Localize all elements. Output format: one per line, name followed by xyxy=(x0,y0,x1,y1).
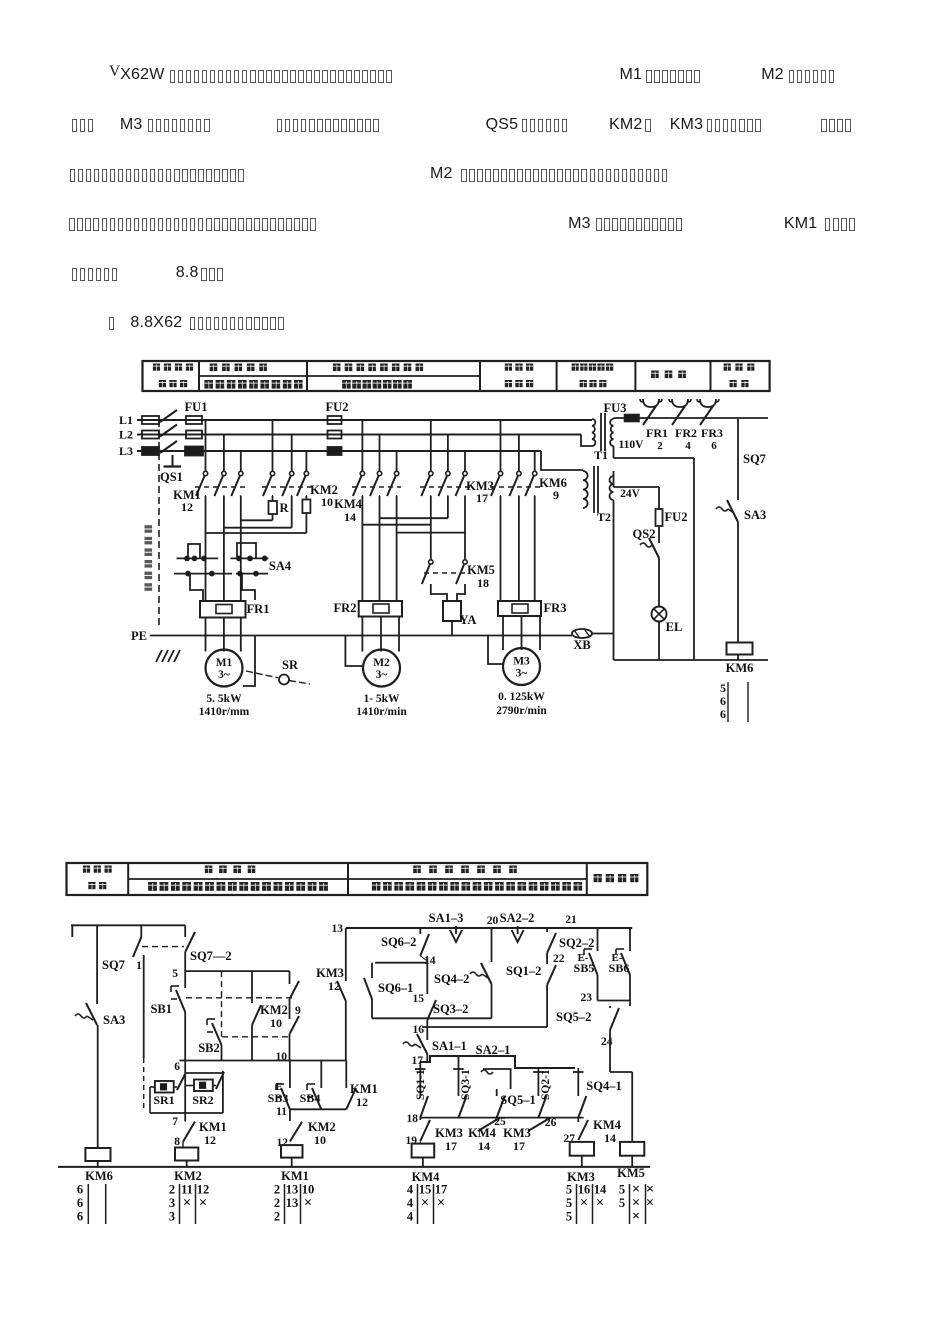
contact xyxy=(290,471,294,475)
svg-text:24V: 24V xyxy=(620,488,641,500)
svg-text:6: 6 xyxy=(720,707,726,721)
svg-text:2: 2 xyxy=(657,440,663,452)
svg-text:×: × xyxy=(580,1195,588,1211)
contact SQ6-2 xyxy=(419,928,421,934)
svg-text:EL: EL xyxy=(666,620,683,634)
contact xyxy=(517,471,521,475)
contact SQ7-1 xyxy=(140,925,142,937)
transformer T1 xyxy=(592,419,595,446)
pushbutton SB3 xyxy=(289,1061,291,1089)
svg-text:6: 6 xyxy=(77,1183,83,1197)
wire branch drop xyxy=(205,420,207,471)
wire 23 xyxy=(598,1000,631,1002)
svg-text:KM4: KM4 xyxy=(468,1126,497,1140)
header cell text 电源开关/及保护 xyxy=(153,364,160,371)
motor M2 earth hook xyxy=(345,636,362,667)
speed relay SR2 contact xyxy=(194,1080,213,1092)
linkage dash SB2 row xyxy=(222,1036,290,1038)
contact xyxy=(203,471,207,475)
svg-text:22: 22 xyxy=(553,953,565,965)
fuse group FU2 (power fuses) xyxy=(328,416,342,424)
contact xyxy=(533,471,537,475)
svg-text:5: 5 xyxy=(720,681,726,695)
svg-text:6: 6 xyxy=(77,1196,83,1210)
svg-text:SB5: SB5 xyxy=(574,961,595,975)
110V control line xyxy=(614,417,769,419)
contact SQ1-1 xyxy=(419,1062,421,1096)
svg-text:KM1: KM1 xyxy=(199,1120,227,1134)
contact xyxy=(222,471,226,475)
svg-text:4: 4 xyxy=(407,1210,414,1224)
svg-text:2790r/min: 2790r/min xyxy=(496,705,547,717)
svg-text:9: 9 xyxy=(553,488,559,502)
svg-text:SQ3-1: SQ3-1 xyxy=(460,1069,472,1100)
svg-text:SA1–1: SA1–1 xyxy=(432,1039,467,1053)
svg-text:10: 10 xyxy=(270,1016,282,1030)
svg-text:2: 2 xyxy=(274,1210,280,1224)
svg-text:9: 9 xyxy=(295,1005,301,1017)
svg-text:SA4: SA4 xyxy=(269,559,292,573)
svg-text:14: 14 xyxy=(344,510,356,524)
svg-text:SR1: SR1 xyxy=(153,1093,174,1107)
speed relay SR1 contact xyxy=(155,1081,174,1093)
pushbutton SB1 xyxy=(184,971,186,988)
svg-text:13: 13 xyxy=(286,1183,299,1197)
linkage dash SB1 row xyxy=(186,997,292,999)
wires KM3 group down xyxy=(430,496,432,560)
bus L1 wire xyxy=(137,419,592,421)
svg-text:20: 20 xyxy=(487,915,499,927)
stub from figure 1 xyxy=(71,925,73,937)
svg-text:KM4: KM4 xyxy=(593,1118,622,1132)
24V loop top wire xyxy=(614,486,660,488)
pushbutton SB2 xyxy=(212,1023,222,1045)
svg-text:0. 125kW: 0. 125kW xyxy=(498,691,545,703)
wire YA to PE xyxy=(451,621,453,636)
wire 110V return xyxy=(613,446,615,458)
svg-text:SB6: SB6 xyxy=(609,961,630,975)
svg-text:5: 5 xyxy=(619,1196,625,1210)
control bottom bus xyxy=(58,1166,650,1168)
contact xyxy=(239,471,243,475)
svg-text:SB2: SB2 xyxy=(198,1041,220,1055)
wires KM6 group to FR3 xyxy=(500,496,502,601)
svg-text:SQ6–2: SQ6–2 xyxy=(381,935,416,949)
svg-text:SQ5–1: SQ5–1 xyxy=(500,1093,535,1107)
svg-text:6: 6 xyxy=(711,440,717,452)
svg-text:SQ2–2: SQ2–2 xyxy=(559,936,594,950)
wire branch drop xyxy=(447,435,449,472)
contact SQ2-2 xyxy=(546,928,548,932)
svg-text:L2: L2 xyxy=(119,428,133,442)
wire y1027 xyxy=(422,1026,547,1028)
contactor coil KM3 xyxy=(570,1142,594,1156)
svg-text:SQ7––2: SQ7––2 xyxy=(190,949,232,963)
svg-text:×: × xyxy=(183,1195,191,1211)
svg-text:KM2: KM2 xyxy=(174,1169,202,1183)
svg-text:3~: 3~ xyxy=(376,669,388,681)
svg-text:10: 10 xyxy=(321,495,333,509)
svg-text:4: 4 xyxy=(407,1183,414,1197)
svg-text:KM3: KM3 xyxy=(435,1126,463,1140)
svg-text:XB: XB xyxy=(573,638,590,652)
wire branch drop xyxy=(291,435,293,472)
contact SQ7-2 xyxy=(184,925,186,937)
wire y1018 xyxy=(372,1017,492,1019)
svg-text:FR1: FR1 xyxy=(646,426,668,440)
svg-text:17: 17 xyxy=(513,1139,525,1153)
contactor coil KM2 xyxy=(175,1148,198,1161)
svg-text:2: 2 xyxy=(274,1196,280,1210)
contact SQ3-2 xyxy=(427,1000,436,1020)
24V winding xyxy=(610,476,614,500)
svg-text:3~: 3~ xyxy=(218,669,230,681)
svg-text:KM2: KM2 xyxy=(260,1003,288,1017)
wire branch drop xyxy=(361,420,363,471)
svg-text:L3: L3 xyxy=(119,444,133,458)
SA4 lower links xyxy=(190,574,203,600)
contact SQ4-1 xyxy=(577,1068,579,1096)
header cell 冷却泵/控制 xyxy=(83,866,90,873)
wire KM2 right to KM1 branch xyxy=(205,532,307,534)
svg-text:12: 12 xyxy=(328,979,340,993)
wire branch drop xyxy=(396,451,398,471)
contact xyxy=(446,471,450,475)
control top wire right xyxy=(346,927,632,929)
svg-text:13: 13 xyxy=(286,1196,299,1210)
linkage dash vertical xyxy=(221,971,223,1037)
wire KM1 branch verticals to SA4 xyxy=(205,496,207,601)
svg-text:13: 13 xyxy=(332,923,344,935)
switch SA3 xyxy=(86,1003,97,1025)
svg-text:17: 17 xyxy=(476,491,488,505)
svg-text:YA: YA xyxy=(460,613,477,627)
svg-text:SB1: SB1 xyxy=(150,1002,172,1016)
contactor coil KM4 xyxy=(412,1144,435,1158)
contact SQ1-2 xyxy=(546,962,548,964)
motor M2 xyxy=(363,650,400,687)
wire node14 xyxy=(375,962,427,964)
svg-text:11: 11 xyxy=(276,1106,287,1118)
svg-text:SR: SR xyxy=(282,658,299,672)
svg-text:18: 18 xyxy=(477,576,489,590)
cooling pump branch wire xyxy=(96,925,98,1004)
earth symbol xyxy=(156,650,162,662)
svg-text:15: 15 xyxy=(413,993,425,1005)
svg-text:5: 5 xyxy=(566,1183,572,1197)
svg-text:14: 14 xyxy=(424,955,436,967)
resistor (braking, unlabelled) xyxy=(305,496,307,500)
header table frame xyxy=(143,361,770,391)
thermal relay FR2 xyxy=(359,601,402,617)
speed relay branch rails xyxy=(185,1072,223,1074)
wire branch drop xyxy=(500,420,502,471)
svg-text:14: 14 xyxy=(604,1131,616,1145)
svg-text:QS1: QS1 xyxy=(160,470,183,484)
svg-text:5. 5kW: 5. 5kW xyxy=(206,693,242,705)
svg-text:KM5: KM5 xyxy=(617,1166,645,1180)
svg-text:SQ3–2: SQ3–2 xyxy=(433,1002,468,1016)
machine boundary dash line xyxy=(158,420,160,628)
wires KM4 group to FR2 xyxy=(361,496,363,601)
svg-text:6: 6 xyxy=(174,1061,180,1073)
contact KM1 12 (brake) xyxy=(184,1121,186,1122)
wire to KM6 coil xyxy=(97,1025,99,1148)
svg-text:SQ7: SQ7 xyxy=(102,958,125,972)
svg-text:KM1: KM1 xyxy=(281,1169,309,1183)
control top wire left xyxy=(71,924,185,926)
lamp EL xyxy=(652,607,667,622)
svg-text:×: × xyxy=(632,1209,640,1225)
bus L2 wire xyxy=(137,434,581,436)
vertical text on boundary xyxy=(145,525,153,533)
contact KM2 10 xyxy=(290,1016,300,1034)
svg-text:1410r/min: 1410r/min xyxy=(356,706,407,718)
svg-text:3: 3 xyxy=(169,1196,175,1210)
phase swap wires KM4-KM3 xyxy=(380,517,448,519)
svg-text:18: 18 xyxy=(407,1113,419,1125)
fuse group FU1 xyxy=(186,416,202,424)
contact KM2 (brake column) xyxy=(251,971,253,1003)
svg-text:4: 4 xyxy=(407,1196,414,1210)
SA2-1 link xyxy=(483,1069,511,1089)
motor M3 xyxy=(503,648,540,685)
svg-text:21: 21 xyxy=(565,914,577,926)
spindle branch from node 13 xyxy=(345,928,347,981)
fuse FU3 xyxy=(625,415,640,422)
header cell 工作台进给控制 / 变速时冲动、上、下、左、右、前、后移动 xyxy=(413,866,421,874)
svg-text:SQ4–2: SQ4–2 xyxy=(434,972,469,986)
svg-text:23: 23 xyxy=(581,992,593,1004)
svg-text:5: 5 xyxy=(566,1196,572,1210)
contactor coil KM6 xyxy=(85,1148,110,1161)
svg-text:2: 2 xyxy=(274,1183,280,1197)
svg-text:1410r/mm: 1410r/mm xyxy=(199,706,250,718)
wire branch drop xyxy=(305,451,307,471)
disconnect switch QS1 xyxy=(160,410,177,422)
svg-text:SA2–2: SA2–2 xyxy=(500,911,535,925)
svg-text:6: 6 xyxy=(720,694,726,708)
contactor coil KM1 xyxy=(281,1145,303,1158)
svg-text:2: 2 xyxy=(169,1183,175,1197)
svg-text:5: 5 xyxy=(619,1183,625,1197)
wire branch drop xyxy=(379,435,381,472)
svg-text:M1: M1 xyxy=(216,657,233,669)
contact SQ6-1 xyxy=(371,963,373,978)
svg-text:R: R xyxy=(279,501,289,515)
wire branch drop xyxy=(272,420,274,471)
svg-text:KM4: KM4 xyxy=(334,497,363,511)
node 11 wire xyxy=(290,1108,346,1110)
wire SQ5-2 to KM5 xyxy=(609,1006,611,1008)
svg-text:16: 16 xyxy=(413,1024,425,1036)
svg-text:M2: M2 xyxy=(373,657,390,669)
wires KM5 to YA xyxy=(431,584,447,601)
SA4 bracket links xyxy=(188,544,200,558)
wire T1 secondary top xyxy=(613,418,615,419)
speed relay SR xyxy=(279,675,289,685)
svg-text:SQ4–1: SQ4–1 xyxy=(586,1079,621,1093)
svg-text:×: × xyxy=(304,1195,312,1211)
thermal contacts FR1 FR2 FR3 on 110V line xyxy=(643,406,656,425)
svg-text:3: 3 xyxy=(169,1210,175,1224)
contact SQ5-1 xyxy=(496,1089,498,1096)
svg-text:5: 5 xyxy=(566,1210,572,1224)
contact KM4 to KM3 coil xyxy=(577,1118,579,1122)
header cell 主轴控制 / 冲动、变速、制动及停转、经动控制 xyxy=(205,866,213,874)
transformer T2 xyxy=(541,451,583,470)
contact KM2 10 interlock xyxy=(289,1109,291,1121)
terminal on L2 xyxy=(142,431,159,439)
svg-text:T2: T2 xyxy=(597,510,611,524)
wire L2 to T1 xyxy=(581,435,592,447)
svg-text:FU2: FU2 xyxy=(665,510,688,524)
wire branch drop xyxy=(240,451,242,471)
24V loop left wire xyxy=(613,500,615,660)
svg-text:KM3: KM3 xyxy=(316,966,344,980)
svg-text:4: 4 xyxy=(685,440,691,452)
wire node6 down xyxy=(184,1061,186,1122)
contact xyxy=(270,471,274,475)
thermal relay FR3 xyxy=(498,601,541,616)
switch QS2 xyxy=(649,538,659,558)
svg-text:KM3: KM3 xyxy=(503,1126,531,1140)
wire below contact 1 xyxy=(143,955,145,1058)
resistor R xyxy=(272,496,274,501)
svg-text:24: 24 xyxy=(601,1036,613,1048)
svg-text:SB4: SB4 xyxy=(300,1091,321,1105)
svg-text:PE: PE xyxy=(131,629,147,643)
motor M3 earth hook xyxy=(488,636,503,665)
contact KM2 9 xyxy=(289,971,291,984)
svg-text:KM2: KM2 xyxy=(308,1120,336,1134)
wire branch drop xyxy=(518,435,520,472)
motor M1 xyxy=(206,650,243,687)
terminal on L1 xyxy=(142,416,159,424)
svg-text:1: 1 xyxy=(136,960,142,972)
svg-text:×: × xyxy=(596,1195,604,1211)
svg-text:SQ1-1: SQ1-1 xyxy=(415,1069,427,1100)
svg-text:×: × xyxy=(646,1195,654,1211)
svg-text:SQ7: SQ7 xyxy=(743,452,766,466)
svg-text:SQ1–2: SQ1–2 xyxy=(506,964,541,978)
svg-text:FR2: FR2 xyxy=(675,426,697,440)
wire branch drop xyxy=(534,451,536,471)
header cell text 主轴电动机 / 止反转、制动及冲动 xyxy=(210,364,218,372)
pushbutton SB6 xyxy=(629,928,631,951)
svg-text:SA3: SA3 xyxy=(744,508,766,522)
svg-text:12: 12 xyxy=(204,1133,216,1147)
svg-text:SA2–1: SA2–1 xyxy=(476,1043,511,1057)
node 10 wire xyxy=(180,1060,347,1062)
fuse FU2 (control) xyxy=(658,487,660,509)
contactor coil KM5 xyxy=(620,1142,644,1156)
svg-text:KM6: KM6 xyxy=(726,661,754,675)
contact SQ2-1 xyxy=(537,1068,539,1096)
header cell text 控制、照明/变压器 xyxy=(572,364,579,371)
contactor KM5 contacts xyxy=(429,560,433,564)
contact KM1 12 (latch) xyxy=(345,1061,347,1089)
svg-text:FU1: FU1 xyxy=(185,400,208,414)
contact xyxy=(463,471,467,475)
contact xyxy=(377,471,381,475)
svg-text:×: × xyxy=(199,1195,207,1211)
feed group top rail xyxy=(420,1056,575,1068)
svg-text:KM1: KM1 xyxy=(350,1082,378,1096)
terminal on L3 xyxy=(142,447,159,455)
contact to KM4 coil xyxy=(419,1118,421,1120)
pushbutton SB4 xyxy=(320,1061,322,1089)
svg-text:M3: M3 xyxy=(513,656,530,668)
svg-text:T1: T1 xyxy=(594,448,608,462)
wire branch drop xyxy=(223,435,225,472)
svg-text:FR2: FR2 xyxy=(334,601,357,615)
contact xyxy=(360,471,364,475)
header cell 快速进给 xyxy=(594,874,602,882)
svg-text:5: 5 xyxy=(172,968,178,980)
svg-text:8: 8 xyxy=(174,1136,180,1148)
svg-text:FR1: FR1 xyxy=(247,602,270,616)
svg-text:SQ5–2: SQ5–2 xyxy=(556,1010,591,1024)
interlock blade KM4 14 xyxy=(478,1118,500,1131)
header table frame xyxy=(67,863,648,895)
bus L3 wire xyxy=(137,450,541,452)
header cell text 工作台进给电动机 / 正反转和快慢速 xyxy=(333,364,341,372)
svg-text:12: 12 xyxy=(277,1137,289,1149)
switch SA3 xyxy=(727,500,738,522)
svg-text:SB3: SB3 xyxy=(268,1091,289,1105)
svg-text:26: 26 xyxy=(545,1117,557,1129)
contactor coil KM6 xyxy=(727,643,753,655)
svg-text:12: 12 xyxy=(356,1095,368,1109)
svg-text:10: 10 xyxy=(314,1133,326,1147)
svg-text:SA1–3: SA1–3 xyxy=(429,911,464,925)
svg-text:SQ6–1: SQ6–1 xyxy=(378,981,413,995)
header cell text 照明灯 xyxy=(651,371,659,379)
cam switch SA1-3 xyxy=(455,926,457,934)
control bottom wire xyxy=(614,659,769,661)
svg-text:FU2: FU2 xyxy=(326,400,349,414)
svg-text:FR3: FR3 xyxy=(544,601,567,615)
svg-text:6: 6 xyxy=(77,1210,83,1224)
svg-text:110V: 110V xyxy=(619,439,645,451)
svg-text:10: 10 xyxy=(276,1051,288,1063)
connector XB xyxy=(572,629,592,638)
svg-text:SQ2-1: SQ2-1 xyxy=(540,1069,552,1100)
svg-text:E: E xyxy=(275,1082,282,1093)
PE earth bus xyxy=(150,635,572,637)
wire KM2 mid to KM1 branch xyxy=(224,527,292,529)
switch SA1-1 xyxy=(426,1027,428,1040)
feed group bottom rail xyxy=(420,1117,583,1119)
header cell text 冷却泵/控制 xyxy=(724,364,731,371)
wire branch drop xyxy=(430,420,432,471)
pushbutton SB5 xyxy=(597,928,599,951)
linkage dash xyxy=(142,946,184,948)
contact SQ3-1 xyxy=(458,1056,460,1096)
contact SQ5-2 xyxy=(629,1001,631,1007)
contact xyxy=(304,471,308,475)
svg-text:×: × xyxy=(421,1195,429,1211)
motor M1 earth hook xyxy=(243,636,255,687)
contact xyxy=(429,471,433,475)
cam switch SA2-2 xyxy=(517,926,519,934)
header cell text 冷却泵/电动机 xyxy=(505,364,512,371)
wire branch drop xyxy=(464,451,466,471)
wire XB to control loop xyxy=(592,633,614,635)
svg-text:×: × xyxy=(437,1195,445,1211)
changeover switch SA4 row 1 xyxy=(177,557,219,559)
